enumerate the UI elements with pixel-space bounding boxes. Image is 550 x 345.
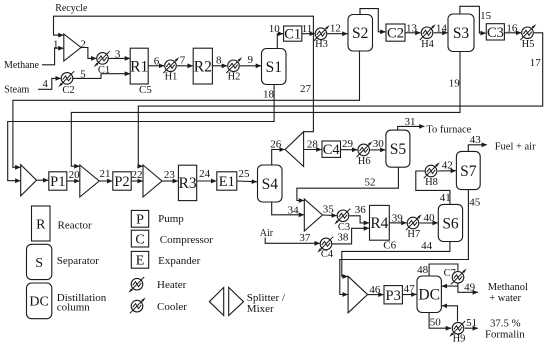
svg-text:7: 7 [180,54,186,66]
svg-text:S1: S1 [266,59,282,76]
svg-text:S7: S7 [460,163,477,180]
svg-text:30: 30 [373,138,385,150]
svg-text:R: R [36,217,46,232]
svg-text:31: 31 [405,116,416,128]
svg-text:H8: H8 [425,177,438,188]
svg-text:H7: H7 [407,229,420,240]
svg-text:E1: E1 [219,174,235,190]
svg-text:R1: R1 [130,58,148,75]
svg-text:DC: DC [29,295,48,310]
svg-text:P3: P3 [386,288,401,304]
svg-text:C5: C5 [139,84,152,96]
svg-text:50: 50 [430,316,442,328]
svg-text:45: 45 [469,197,481,209]
svg-text:P1: P1 [50,174,65,190]
svg-text:C: C [135,232,144,247]
svg-text:51: 51 [466,317,477,329]
svg-text:44: 44 [421,240,433,252]
svg-text:35: 35 [323,204,335,216]
svg-text:H5: H5 [522,39,535,50]
svg-text:C1: C1 [98,65,110,76]
svg-text:Expander: Expander [158,255,200,267]
svg-text:E: E [136,254,145,269]
svg-text:C2: C2 [62,85,74,96]
svg-text:13: 13 [406,23,418,35]
svg-text:43: 43 [470,134,482,146]
svg-text:Separator: Separator [57,255,99,267]
svg-text:34: 34 [288,205,300,217]
svg-text:6: 6 [154,55,160,67]
svg-text:20: 20 [69,169,81,181]
svg-text:S3: S3 [453,25,470,42]
svg-text:To furnace: To furnace [426,124,471,135]
svg-text:12: 12 [330,22,341,34]
svg-text:H9: H9 [453,333,466,344]
svg-text:47: 47 [404,283,416,295]
svg-text:29: 29 [342,138,354,150]
svg-text:Compressor: Compressor [160,234,214,246]
svg-text:38: 38 [337,232,349,244]
svg-text:S2: S2 [352,25,368,42]
svg-text:P: P [136,213,144,228]
svg-text:P2: P2 [114,174,129,190]
svg-text:10: 10 [269,23,281,35]
svg-text:H4: H4 [421,39,435,50]
svg-text:C4: C4 [323,142,341,158]
svg-text:14: 14 [436,23,448,35]
svg-text:C3: C3 [487,25,504,41]
svg-text:42: 42 [442,159,453,171]
svg-text:C2: C2 [387,26,404,42]
svg-text:Methane: Methane [4,60,40,71]
svg-text:27: 27 [300,83,312,95]
svg-text:S5: S5 [390,141,407,158]
svg-text:24: 24 [199,168,211,180]
svg-text:Fuel + air: Fuel + air [495,141,536,152]
svg-text:18: 18 [263,88,275,100]
svg-text:15: 15 [480,10,492,22]
svg-text:Methanol: Methanol [488,282,528,293]
svg-text:17: 17 [530,57,542,69]
svg-text:R4: R4 [370,215,388,232]
svg-text:Steam: Steam [4,85,29,96]
svg-text:2: 2 [80,38,86,50]
svg-text:23: 23 [164,169,176,181]
svg-text:19: 19 [449,77,461,89]
svg-text:H3: H3 [315,39,328,50]
svg-text:22: 22 [132,169,143,181]
svg-text:3: 3 [115,49,121,61]
svg-text:4: 4 [42,78,48,90]
svg-text:26: 26 [270,139,282,151]
svg-text:28: 28 [307,139,319,151]
svg-text:Mixer: Mixer [247,303,274,315]
svg-text:9: 9 [247,54,253,66]
svg-text:Heater: Heater [157,279,187,291]
svg-text:40: 40 [424,212,436,224]
svg-text:R2: R2 [194,58,212,75]
svg-text:Air: Air [260,228,274,239]
svg-text:25: 25 [239,168,251,180]
svg-text:21: 21 [100,168,111,180]
svg-text:C1: C1 [284,27,301,43]
svg-text:8: 8 [216,54,222,66]
svg-text:46: 46 [369,284,381,296]
svg-text:Pump: Pump [158,213,184,225]
svg-text:52: 52 [365,177,376,189]
svg-text:16: 16 [506,23,518,35]
svg-text:1: 1 [53,38,59,50]
svg-text:5: 5 [80,69,86,81]
svg-text:S4: S4 [262,176,279,193]
svg-text:S: S [35,256,43,271]
svg-text:48: 48 [417,264,429,276]
svg-text:41: 41 [440,192,451,204]
svg-text:H6: H6 [358,156,371,167]
svg-text:37: 37 [299,232,311,244]
svg-text:C4: C4 [321,249,334,260]
svg-text:R3: R3 [179,175,197,192]
svg-text:S6: S6 [442,215,459,232]
svg-text:Recycle: Recycle [55,3,88,14]
svg-text:C6: C6 [383,240,396,252]
svg-text:11: 11 [302,23,313,35]
svg-text:49: 49 [464,282,476,294]
svg-text:C7: C7 [444,268,456,279]
svg-text:H2: H2 [228,72,241,83]
svg-text:Cooler: Cooler [157,301,187,313]
svg-text:DC: DC [418,287,440,304]
svg-text:36: 36 [355,204,367,216]
svg-text:39: 39 [392,212,404,224]
svg-text:Reactor: Reactor [58,220,93,232]
svg-text:Formalin: Formalin [485,329,525,341]
svg-text:column: column [57,301,90,313]
svg-text:H1: H1 [165,72,178,83]
svg-text:+ water: + water [489,293,521,304]
